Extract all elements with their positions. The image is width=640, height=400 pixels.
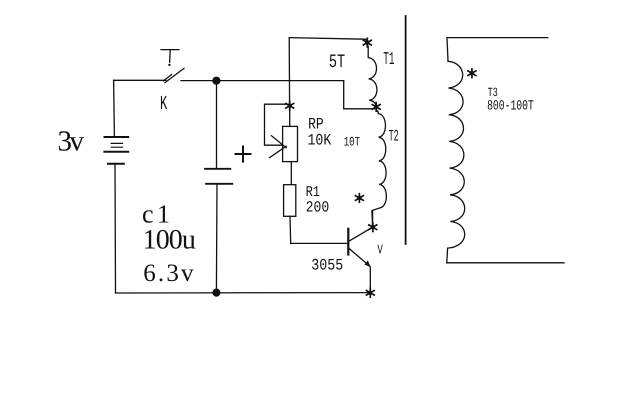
switch K actuator stem — [169, 50, 172, 62]
winding T1 (5T) coil — [368, 46, 377, 106]
battery B1 second long plate — [104, 151, 128, 153]
svg-text:100u: 100u — [143, 224, 196, 255]
svg-text:T2: T2 — [389, 127, 399, 145]
transistor V base bar — [347, 229, 349, 255]
svg-text:200: 200 — [306, 199, 330, 217]
svg-text:5T: 5T — [329, 51, 345, 73]
svg-text:3v: 3v — [58, 125, 85, 157]
node star T1 top — [363, 38, 371, 47]
potentiometer RP body — [283, 126, 298, 161]
capacitor C1 polarity plus sign — [236, 147, 251, 162]
svg-text:V: V — [377, 243, 383, 258]
node star T2 top (center tap) — [372, 103, 380, 112]
wire feedback top horizontal — [289, 38, 367, 42]
wire capacitor branch lower — [215, 184, 218, 293]
switch K actuator dot — [168, 64, 170, 66]
svg-text:T1: T1 — [383, 50, 394, 70]
svg-text:10K: 10K — [308, 131, 332, 149]
switch K actuator bar — [161, 49, 179, 51]
potentiometer RP wiper bracket wire — [265, 104, 289, 145]
svg-text:K: K — [160, 93, 167, 116]
wire emitter to bottom rail — [369, 267, 371, 293]
transformer core bar — [405, 16, 407, 244]
wire left rail upper (battery positive lead) — [113, 80, 116, 136]
wire RP to R1 — [290, 162, 292, 185]
wire R1 to base — [289, 216, 292, 243]
wire top rail left segment — [114, 79, 166, 81]
svg-text:3055: 3055 — [311, 256, 343, 274]
battery B1 top long plate — [105, 136, 129, 138]
node star RP top junction — [286, 102, 294, 111]
battery B1 bottom short plate — [108, 163, 124, 165]
wire T3 bottom lead — [447, 262, 564, 264]
node star collector junction — [369, 223, 377, 232]
wire feedback vertical — [288, 38, 290, 106]
transistor V collector lead — [349, 228, 371, 241]
switch K blade — [165, 68, 184, 82]
svg-text:800-100T: 800-100T — [487, 98, 534, 114]
node junction dot bottom — [212, 289, 220, 297]
transistor V emitter arrowhead — [364, 260, 370, 267]
transistor V emitter lead — [349, 249, 369, 266]
winding T3 (800-100T) coil — [447, 61, 465, 262]
node star emitter bottom junction — [366, 289, 374, 298]
node junction dot top — [212, 77, 220, 85]
wire top rail right segment — [181, 80, 344, 82]
capacitor C1 top plate — [205, 168, 230, 170]
winding T2 (10T) coil — [372, 110, 386, 226]
wire capacitor branch upper — [216, 81, 218, 169]
wire transistor base lead — [291, 242, 348, 244]
node star winding phase dot left of T2 — [356, 194, 364, 203]
wire RP top lead — [289, 106, 291, 127]
capacitor C1 bottom plate — [206, 183, 232, 185]
battery B1 short double plate — [111, 143, 122, 147]
wire left rail lower (battery negative lead) — [114, 164, 117, 293]
wire center tap from top rail — [344, 81, 375, 109]
wire bottom rail — [116, 292, 372, 294]
wire collector to T2 — [372, 211, 374, 227]
resistor R1 body — [284, 185, 296, 217]
svg-text:6.3v: 6.3v — [143, 260, 196, 287]
potentiometer RP wiper arrow — [270, 136, 287, 158]
node star T3 phase dot — [468, 69, 476, 78]
wire T3 top lead — [447, 38, 548, 61]
svg-text:10T: 10T — [344, 135, 360, 150]
switch K contact tick — [163, 75, 171, 81]
